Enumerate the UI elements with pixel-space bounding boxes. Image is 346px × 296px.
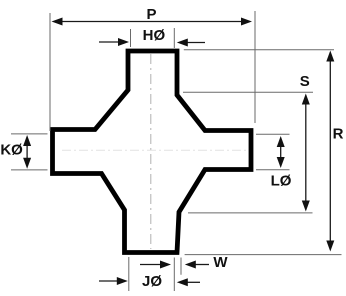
S extension line top xyxy=(183,91,313,93)
P extension line left xyxy=(49,13,51,131)
svg-text:KØ: KØ xyxy=(0,142,23,159)
R arrow down xyxy=(326,241,334,252)
S arrow up xyxy=(302,94,310,105)
JO extension line left xyxy=(128,257,130,291)
W arrow right xyxy=(193,264,209,266)
R arrow up xyxy=(326,51,334,62)
HO arrow right xyxy=(185,42,205,44)
S dimension line xyxy=(305,100,307,205)
S extension line bottom xyxy=(188,212,313,214)
svg-text:LØ: LØ xyxy=(271,173,292,190)
JO arrow left xyxy=(99,280,119,282)
svg-text:W: W xyxy=(213,254,228,271)
R dimension line xyxy=(329,57,331,245)
P arrow right xyxy=(241,18,252,26)
W extension line inner xyxy=(173,258,175,292)
svg-text:P: P xyxy=(146,6,156,23)
S arrow down xyxy=(302,201,310,212)
svg-text:HØ: HØ xyxy=(143,27,166,44)
LO extension line top xyxy=(256,133,290,135)
HO extension tick left xyxy=(130,29,132,47)
KO dimension double arrow xyxy=(26,141,28,163)
svg-text:JØ: JØ xyxy=(142,273,162,290)
KO extension line bottom xyxy=(11,169,48,171)
svg-text:R: R xyxy=(333,126,344,143)
LO extension line bottom xyxy=(256,169,290,171)
JO arrow right xyxy=(185,281,200,283)
cross tube outline xyxy=(53,51,252,253)
P extension line right xyxy=(254,11,256,123)
svg-text:S: S xyxy=(300,73,310,90)
P arrow left xyxy=(52,18,63,26)
HO extension tick right xyxy=(173,28,175,48)
LO dimension double arrow xyxy=(280,142,282,162)
vertical centerline xyxy=(150,54,152,249)
P dimension line xyxy=(58,21,245,23)
W arrow left xyxy=(140,264,162,266)
R extension line top xyxy=(184,49,334,51)
R extension line bottom xyxy=(185,254,342,256)
W extension line outer xyxy=(180,258,182,275)
HO arrow left xyxy=(99,41,120,43)
KO extension line top xyxy=(11,133,48,135)
horizontal centerline (faint) xyxy=(62,149,246,151)
